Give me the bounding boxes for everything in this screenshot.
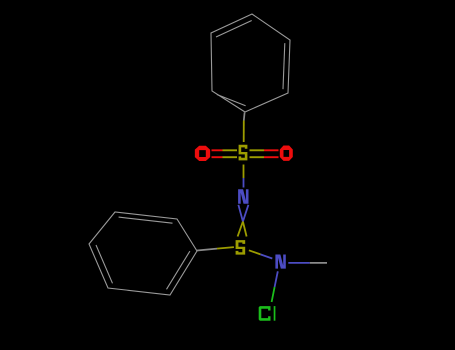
benzene ring 2 (left phenyl) [89,212,197,295]
wire S1 to N1 [243,165,245,179]
S1=O right double bond [250,150,279,157]
wire S2 to ring2 [217,247,234,249]
wire N2 to methyl [288,262,310,264]
wire ring1 to S1 [243,113,246,121]
N1=S2 crossed double bond [238,205,249,237]
S2 [236,240,246,255]
N1 [238,189,248,204]
wire N2 to Cl [275,271,278,287]
Cl [259,306,271,321]
O left [195,146,210,161]
wire S2 to N2 [249,250,261,254]
S1=O left double bond [212,150,238,157]
N2 [275,255,285,269]
O right [280,146,293,161]
benzene ring 1 (top phenyl) [211,14,290,112]
sulfonyl S1 [239,145,248,161]
